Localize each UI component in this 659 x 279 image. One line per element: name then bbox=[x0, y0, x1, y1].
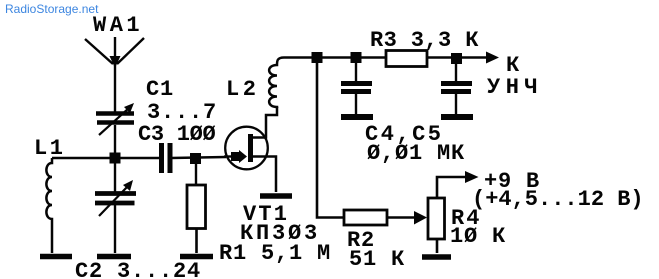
svg-text:51 К: 51 К bbox=[349, 247, 405, 272]
capacitor C1 (variable) bbox=[96, 114, 134, 123]
VT1 gate lead and arrow bbox=[224, 155, 234, 157]
C1 wire to node bbox=[114, 125, 116, 158]
svg-text:УНЧ: УНЧ bbox=[487, 75, 543, 100]
svg-text:C3 1ØØ: C3 1ØØ bbox=[138, 122, 216, 147]
node D (C4 junction) bbox=[351, 52, 362, 63]
svg-text:WA1: WA1 bbox=[93, 13, 143, 38]
svg-text:(+4,5...12 В): (+4,5...12 В) bbox=[472, 187, 644, 212]
resistor R3 bbox=[386, 51, 427, 67]
wire top rail bbox=[284, 56, 488, 59]
ground (under C2) bbox=[97, 254, 131, 260]
supply arrow +9V bbox=[465, 171, 479, 183]
ground (under R1) bbox=[180, 254, 213, 260]
C1 variable arrow bbox=[99, 108, 129, 135]
capacitor C4 bbox=[355, 60, 357, 82]
wire R2 to R4 wiper bbox=[387, 216, 415, 219]
R4 wiper arrow bbox=[414, 211, 427, 225]
svg-text:RadioStorage.net: RadioStorage.net bbox=[5, 2, 99, 16]
node A (antenna/C2 junction) bbox=[110, 153, 121, 164]
capacitor C5 bbox=[455, 60, 457, 82]
inductor L2 bbox=[269, 58, 284, 109]
ground (under L1) bbox=[40, 254, 72, 260]
svg-text:Ø,Ø1 МК: Ø,Ø1 МК bbox=[367, 141, 465, 166]
ground (under R4) bbox=[422, 254, 451, 260]
node B (R1/gate junction) bbox=[190, 153, 201, 164]
svg-text:L2: L2 bbox=[226, 77, 259, 102]
VT1 channel bar bbox=[248, 134, 253, 162]
transistor VT1 bbox=[225, 127, 268, 170]
capacitor C3 bbox=[162, 143, 171, 173]
VT1 drain wire to L2 bbox=[253, 107, 277, 138]
R4 bottom wire bbox=[436, 239, 439, 253]
node C (rail/vertical junction) bbox=[312, 52, 323, 63]
VT1 source wire bbox=[253, 157, 276, 193]
wire vertical from rail to R2 bbox=[317, 63, 344, 218]
svg-text:C1: C1 bbox=[146, 77, 174, 102]
capacitor C2 (variable) bbox=[114, 158, 116, 192]
node E (C5 junction) bbox=[451, 53, 462, 64]
output arrow to AF amp bbox=[486, 52, 499, 64]
resistor R2 bbox=[344, 210, 387, 225]
svg-text:C2 3...24: C2 3...24 bbox=[75, 259, 201, 279]
svg-text:КП3Ø3: КП3Ø3 bbox=[240, 221, 320, 246]
ground (under VT1 source) bbox=[260, 193, 292, 199]
resistor R4 (potentiometer) bbox=[428, 198, 445, 239]
svg-text:R3 3,3 К: R3 3,3 К bbox=[370, 28, 479, 53]
svg-text:L1: L1 bbox=[34, 136, 65, 161]
resistor R1 bbox=[195, 163, 197, 185]
antenna WA1 bbox=[85, 37, 144, 113]
ground (under C5) bbox=[441, 114, 473, 120]
wire main horizontal bbox=[52, 157, 160, 160]
C2 variable arrow bbox=[99, 186, 128, 216]
svg-text:1Ø К: 1Ø К bbox=[450, 224, 506, 249]
antenna arrowhead bbox=[110, 56, 121, 68]
inductor L1 bbox=[46, 158, 52, 253]
R4 top wire to supply bbox=[437, 177, 466, 198]
ground (under C4) bbox=[341, 114, 373, 120]
